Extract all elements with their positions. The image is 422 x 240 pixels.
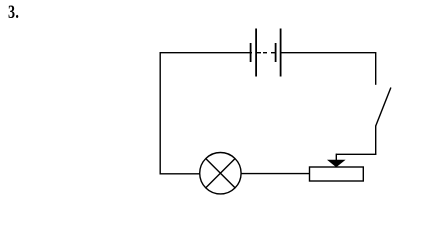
- wire: top horizontal right of battery: [281, 52, 376, 54]
- wire: rheostat to lamp: [241, 173, 309, 175]
- wire: top horizontal left of battery: [160, 52, 252, 54]
- wire: dashed link between battery cells: [257, 52, 261, 54]
- wire: right vertical below switch: [375, 126, 377, 155]
- rheostat wiper arrow: [327, 160, 346, 167]
- switch S1 blade (open): [376, 88, 391, 127]
- battery cell 1 long plate: [255, 29, 257, 77]
- rheostat R body: [310, 167, 364, 181]
- label 3.: [8, 2, 19, 24]
- battery cell 2 short plate: [275, 43, 277, 62]
- wire: lamp to left corner: [160, 173, 200, 175]
- wire: wiper vertical drop: [335, 154, 337, 161]
- lamp X diagonal 2: [206, 159, 235, 188]
- battery cell 2 long plate: [280, 29, 282, 77]
- lamp X diagonal 1: [206, 159, 235, 188]
- lamp L circle: [200, 153, 241, 194]
- wire: horizontal from switch to rheostat wiper: [336, 153, 376, 155]
- wire: left vertical: [159, 52, 161, 175]
- battery cell 1 short plate: [250, 43, 252, 62]
- wire: right vertical above switch: [375, 52, 377, 85]
